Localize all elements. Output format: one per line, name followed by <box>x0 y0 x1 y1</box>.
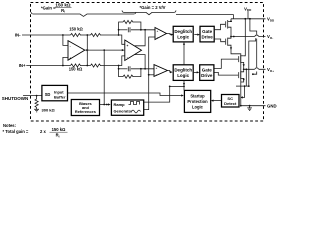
svg-text:IN+: IN+ <box>19 63 26 68</box>
svg-text:*Gain =: *Gain = <box>41 5 56 10</box>
svg-text:Detect: Detect <box>224 101 237 106</box>
svg-text:+: + <box>127 44 129 48</box>
svg-text:150 kΩ: 150 kΩ <box>52 127 66 132</box>
svg-text:-: - <box>157 35 158 39</box>
svg-text:IN-: IN- <box>15 33 21 38</box>
svg-text:Deglitch: Deglitch <box>174 29 192 34</box>
svg-text:+: + <box>156 66 158 70</box>
svg-text:GND: GND <box>267 103 277 108</box>
svg-text:VDD: VDD <box>244 6 252 12</box>
svg-text:Buffer: Buffer <box>54 95 66 100</box>
svg-text:Notes:: Notes: <box>3 123 16 128</box>
svg-text:Gate: Gate <box>202 68 213 73</box>
svg-text:Drive: Drive <box>201 35 213 40</box>
svg-text:150 kΩ: 150 kΩ <box>69 27 83 32</box>
svg-text:Drive: Drive <box>201 73 213 78</box>
svg-text:Deglitch: Deglitch <box>174 68 192 73</box>
svg-text:VDD: VDD <box>267 17 275 23</box>
svg-text:+: + <box>157 29 159 33</box>
svg-text:References: References <box>75 109 96 114</box>
svg-text:*Gain = 2 V/V: *Gain = 2 V/V <box>140 5 166 10</box>
svg-text:Gate: Gate <box>202 29 213 34</box>
svg-text:RI: RI <box>61 8 65 14</box>
svg-text:+: + <box>69 57 71 61</box>
svg-text:150 kΩ: 150 kΩ <box>69 67 83 72</box>
svg-text:Logic: Logic <box>177 73 189 78</box>
svg-text:Startup: Startup <box>190 93 205 98</box>
svg-text:-: - <box>70 45 71 49</box>
svg-text:Ramp: Ramp <box>114 102 126 107</box>
svg-text:Logic: Logic <box>177 35 189 40</box>
svg-text:150 kΩ: 150 kΩ <box>55 3 70 8</box>
svg-text:-: - <box>156 72 157 76</box>
svg-text:SHUTDOWN: SHUTDOWN <box>2 96 29 101</box>
svg-text:Protection: Protection <box>187 99 208 104</box>
svg-text:Logic: Logic <box>192 105 204 110</box>
svg-text:VO+: VO+ <box>267 67 274 73</box>
svg-text:VO-: VO- <box>267 34 273 40</box>
svg-text:* Total gain =: * Total gain = <box>3 129 29 134</box>
svg-text:-: - <box>127 55 128 59</box>
svg-text:SD: SD <box>45 92 51 97</box>
svg-text:RI: RI <box>56 133 60 139</box>
svg-text:2 x: 2 x <box>40 129 46 134</box>
svg-text:Generator: Generator <box>114 108 134 113</box>
svg-text:300 kΩ: 300 kΩ <box>42 107 56 112</box>
